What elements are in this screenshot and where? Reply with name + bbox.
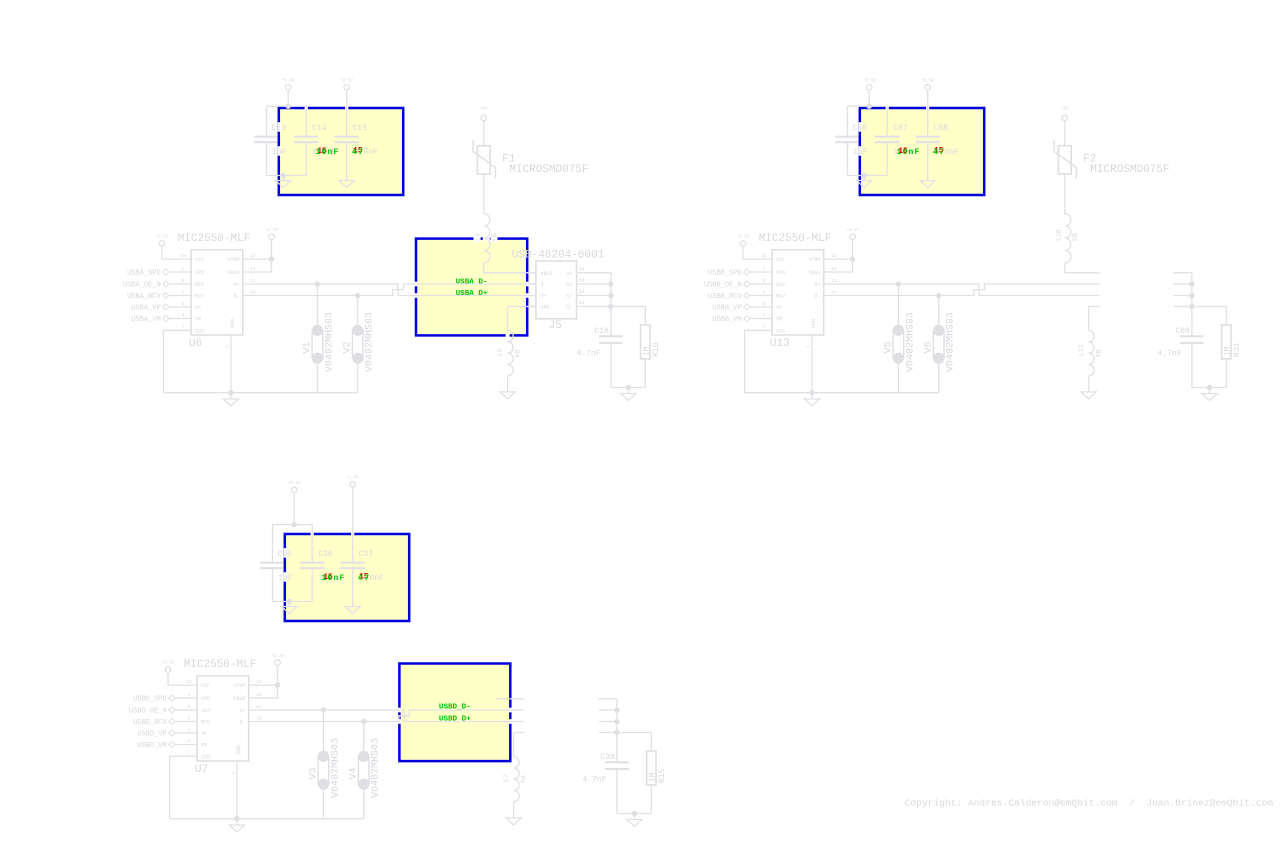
svg-text:+2.5V: +2.5V bbox=[156, 236, 169, 240]
wire VBUS stub (block C) bbox=[496, 698, 525, 700]
net label USBA_OE_N pin 9 bbox=[169, 283, 192, 285]
svg-text:15: 15 bbox=[186, 679, 192, 685]
wire S1 bbox=[577, 306, 611, 308]
svg-text:+5V: +5V bbox=[480, 108, 488, 112]
svg-text:C87: C87 bbox=[893, 124, 908, 133]
ground bbox=[500, 392, 515, 399]
svg-text:RCV: RCV bbox=[195, 294, 204, 300]
ferrite bead L11 bbox=[1089, 331, 1095, 376]
capacitor C13 bbox=[266, 106, 268, 137]
svg-text:C89: C89 bbox=[1175, 327, 1190, 336]
ground bbox=[627, 820, 642, 827]
ground bbox=[276, 181, 291, 188]
resistor R10 1M bbox=[611, 307, 645, 326]
svg-text:+2.5V: +2.5V bbox=[737, 236, 750, 240]
capacitor C16 4.7nF bbox=[610, 307, 612, 337]
svg-text:14: 14 bbox=[831, 266, 837, 272]
net label USBD_RCV pin 2 bbox=[175, 721, 198, 723]
capacitor C89 4.7nF bbox=[1191, 307, 1193, 337]
svg-text:D-: D- bbox=[541, 282, 547, 288]
svg-text:VTRM: VTRM bbox=[227, 257, 239, 263]
svg-text:MICROSMD075F: MICROSMD075F bbox=[1090, 164, 1169, 176]
svg-text:C15: C15 bbox=[353, 124, 368, 133]
svg-text:1uF: 1uF bbox=[278, 574, 293, 583]
net label USBA_VP pin 3 bbox=[169, 306, 192, 308]
svg-text:2: 2 bbox=[182, 290, 185, 296]
svg-text:V0402MHS03: V0402MHS03 bbox=[365, 312, 376, 372]
svg-text:D-: D- bbox=[814, 294, 820, 300]
svg-text:USBA_D-: USBA_D- bbox=[456, 279, 488, 287]
svg-text:L10: L10 bbox=[1056, 229, 1063, 241]
svg-text:10: 10 bbox=[256, 716, 262, 722]
wire pin 15 VIF bbox=[743, 246, 772, 259]
svg-text:12: 12 bbox=[256, 679, 262, 685]
wire S2 bbox=[1174, 295, 1192, 297]
wire pin 15 VIF bbox=[162, 246, 191, 259]
wire S2 bbox=[599, 721, 617, 723]
svg-text:VM: VM bbox=[776, 317, 782, 323]
fuse F1 MICROSMD075F bbox=[483, 121, 485, 146]
wire shield bus bbox=[616, 699, 618, 733]
wire bbox=[1192, 387, 1226, 389]
svg-text:USBD_OE_N: USBD_OE_N bbox=[129, 707, 167, 715]
svg-text:USBA_VM: USBA_VM bbox=[131, 316, 160, 324]
svg-text:VTRM: VTRM bbox=[808, 257, 820, 263]
wire gnd bus bbox=[745, 392, 939, 394]
svg-text:+3.3V: +3.3V bbox=[265, 229, 278, 233]
svg-text:+2.5V: +2.5V bbox=[346, 477, 359, 481]
svg-text:GND: GND bbox=[541, 305, 550, 311]
svg-text:U7: U7 bbox=[195, 764, 208, 776]
svg-text:SPD: SPD bbox=[201, 696, 210, 702]
wire bbox=[273, 524, 313, 526]
highlight box around C87 C88 bbox=[860, 108, 984, 195]
wire bbox=[611, 387, 645, 389]
svg-text:7: 7 bbox=[182, 324, 185, 330]
wire S2 bbox=[577, 295, 611, 297]
wire S1 bbox=[1174, 306, 1192, 308]
connector pin 3 D+ bbox=[527, 295, 536, 297]
wire S4 bbox=[577, 272, 611, 274]
svg-text:7: 7 bbox=[188, 750, 191, 756]
svg-text:U6: U6 bbox=[189, 338, 202, 350]
svg-text:47: 47 bbox=[352, 148, 365, 157]
svg-text:2: 2 bbox=[188, 716, 191, 722]
wire VBUS bbox=[484, 263, 536, 273]
svg-text:47: 47 bbox=[933, 148, 946, 157]
svg-text:FB: FB bbox=[521, 775, 528, 783]
svg-text:D-: D- bbox=[233, 294, 239, 300]
svg-text:VIF: VIF bbox=[201, 683, 210, 689]
svg-text:3: 3 bbox=[188, 727, 191, 733]
svg-text:GND: GND bbox=[236, 745, 242, 754]
wire D- with crossover jog bbox=[243, 290, 536, 296]
ground bbox=[339, 181, 354, 188]
svg-text:3: 3 bbox=[182, 301, 185, 307]
svg-text:15: 15 bbox=[761, 253, 767, 259]
svg-text:OE#: OE# bbox=[195, 282, 204, 288]
svg-text:SUS: SUS bbox=[776, 328, 785, 334]
svg-text:GND: GND bbox=[230, 319, 236, 328]
svg-text:FB: FB bbox=[1072, 233, 1079, 241]
svg-text:OE#: OE# bbox=[776, 282, 785, 288]
net label USBD_VM pin 4 bbox=[175, 744, 198, 746]
svg-text:+3.3V: +3.3V bbox=[271, 655, 284, 659]
ground bbox=[920, 181, 935, 188]
wire pin 14 VBUS bbox=[824, 259, 853, 272]
svg-text:VBUS: VBUS bbox=[233, 696, 245, 702]
svg-text:9: 9 bbox=[188, 704, 191, 710]
resistor R15 1M bbox=[617, 733, 651, 752]
ground bbox=[506, 818, 521, 825]
wire pin 7 SUS bbox=[170, 756, 198, 818]
svg-text:11: 11 bbox=[831, 278, 837, 284]
wire bbox=[267, 105, 307, 107]
varistor V2 VO402MHS03 bbox=[357, 296, 359, 331]
svg-text:S4: S4 bbox=[579, 266, 585, 272]
svg-text:12: 12 bbox=[831, 253, 837, 259]
svg-text:VM: VM bbox=[201, 743, 207, 749]
svg-text:USBA_OE_N: USBA_OE_N bbox=[123, 281, 161, 289]
svg-text:10nF: 10nF bbox=[322, 574, 346, 583]
svg-text:USBD_VP: USBD_VP bbox=[137, 730, 166, 738]
wire S4 bbox=[599, 698, 617, 700]
svg-text:11: 11 bbox=[250, 278, 256, 284]
svg-text:C36: C36 bbox=[318, 550, 333, 559]
wire bbox=[848, 175, 888, 177]
net label USBB_VP pin 3 bbox=[750, 306, 773, 308]
svg-text:S2: S2 bbox=[566, 294, 572, 300]
wire pin 7 SUS bbox=[745, 330, 773, 392]
svg-text:S2: S2 bbox=[579, 289, 585, 295]
svg-text:15: 15 bbox=[180, 253, 186, 259]
svg-text:USBD_VM: USBD_VM bbox=[137, 742, 166, 750]
svg-text:6: 6 bbox=[231, 771, 237, 774]
svg-text:3: 3 bbox=[763, 301, 766, 307]
svg-text:V5: V5 bbox=[883, 341, 894, 353]
svg-text:USBB_VM: USBB_VM bbox=[712, 316, 741, 324]
svg-text:S3: S3 bbox=[566, 282, 572, 288]
svg-text:D+: D+ bbox=[814, 282, 820, 288]
svg-text:4: 4 bbox=[763, 313, 766, 319]
svg-text:1: 1 bbox=[528, 267, 531, 273]
svg-text:2: 2 bbox=[763, 290, 766, 296]
svg-text:V4: V4 bbox=[349, 767, 360, 779]
svg-text:USBB_OE_N: USBB_OE_N bbox=[704, 281, 742, 289]
svg-text:OE#: OE# bbox=[201, 708, 210, 714]
svg-text:4: 4 bbox=[182, 313, 185, 319]
svg-text:1M: 1M bbox=[648, 772, 657, 782]
wire S3 bbox=[599, 709, 617, 711]
connector pin 4 GND bbox=[527, 306, 536, 308]
svg-text:Copyright: Andres.Calderon@emQ: Copyright: Andres.Calderon@emQbit.com / … bbox=[905, 797, 1274, 808]
svg-text:USBB_VP: USBB_VP bbox=[712, 304, 741, 312]
svg-text:VTRM: VTRM bbox=[233, 683, 245, 689]
capacitor C15 bbox=[346, 90, 348, 137]
connector pin 1 VBUS bbox=[527, 272, 536, 274]
wire S3 bbox=[1174, 283, 1192, 285]
wire bbox=[267, 175, 307, 177]
ground bbox=[282, 607, 297, 614]
svg-text:VIF: VIF bbox=[776, 257, 785, 263]
svg-text:VP: VP bbox=[195, 305, 201, 311]
svg-text:12: 12 bbox=[250, 253, 256, 259]
svg-text:+2.5V: +2.5V bbox=[921, 80, 934, 84]
varistor V3 VO402MHS03 bbox=[322, 710, 324, 756]
svg-text:4.7nF: 4.7nF bbox=[577, 350, 601, 359]
svg-text:S3: S3 bbox=[579, 278, 585, 284]
svg-text:MIC2550-MLF: MIC2550-MLF bbox=[184, 659, 257, 671]
svg-text:VBUS: VBUS bbox=[227, 270, 239, 276]
wire connector GND bbox=[512, 759, 516, 763]
svg-text:+2.5V: +2.5V bbox=[162, 662, 175, 666]
svg-text:4: 4 bbox=[528, 301, 531, 307]
svg-text:SUS: SUS bbox=[195, 328, 204, 334]
ground bbox=[345, 607, 360, 614]
svg-text:14: 14 bbox=[250, 266, 256, 272]
wire pin 15 VIF bbox=[168, 672, 197, 685]
svg-text:C86: C86 bbox=[853, 124, 868, 133]
svg-text:V6: V6 bbox=[924, 341, 935, 353]
svg-text:SPD: SPD bbox=[195, 270, 204, 276]
svg-text:D-: D- bbox=[239, 720, 245, 726]
capacitor C87 bbox=[886, 106, 888, 137]
ground bbox=[857, 181, 872, 188]
wire connector GND bbox=[1089, 306, 1100, 308]
svg-text:1: 1 bbox=[188, 692, 191, 698]
svg-text:+2.5V: +2.5V bbox=[340, 80, 353, 84]
svg-text:+3.3V: +3.3V bbox=[282, 80, 295, 84]
svg-text:L7: L7 bbox=[503, 774, 510, 782]
svg-text:SPD: SPD bbox=[776, 270, 785, 276]
svg-text:C13: C13 bbox=[272, 124, 287, 133]
svg-text:10nF: 10nF bbox=[897, 148, 921, 157]
svg-text:V3: V3 bbox=[308, 767, 319, 779]
ground bbox=[1081, 392, 1096, 399]
capacitor C38 4.7nF bbox=[616, 733, 618, 763]
svg-text:VBUS: VBUS bbox=[808, 270, 820, 276]
net label USBA_RCV pin 2 bbox=[169, 295, 192, 297]
capacitor C86 bbox=[847, 106, 849, 137]
ferrite bead L4 bbox=[474, 235, 481, 242]
svg-text:+3.3V: +3.3V bbox=[863, 80, 876, 84]
svg-text:USBA_D+: USBA_D+ bbox=[456, 290, 488, 298]
capacitor C14 bbox=[305, 106, 307, 137]
svg-text:4: 4 bbox=[188, 739, 191, 745]
svg-text:C14: C14 bbox=[312, 124, 327, 133]
svg-text:11: 11 bbox=[256, 704, 262, 710]
svg-text:9: 9 bbox=[763, 278, 766, 284]
svg-text:10nF: 10nF bbox=[316, 148, 340, 157]
svg-text:USBA_SPD: USBA_SPD bbox=[127, 269, 161, 277]
svg-text:10: 10 bbox=[250, 290, 256, 296]
highlight box around C14 C15 bbox=[279, 108, 403, 195]
wire pin 12 VTRM bbox=[249, 684, 278, 686]
svg-text:V0402MHS03: V0402MHS03 bbox=[330, 738, 341, 798]
ground bbox=[621, 394, 636, 401]
varistor V6 VO402MHS03 bbox=[938, 296, 940, 331]
svg-text:USBA_VP: USBA_VP bbox=[131, 304, 160, 312]
svg-text:9: 9 bbox=[182, 278, 185, 284]
svg-text:6: 6 bbox=[225, 345, 231, 348]
svg-text:C37: C37 bbox=[359, 550, 374, 559]
svg-text:4.7nF: 4.7nF bbox=[1158, 350, 1182, 359]
svg-text:C35: C35 bbox=[278, 550, 293, 559]
svg-text:C88: C88 bbox=[934, 124, 949, 133]
svg-text:RCV: RCV bbox=[776, 294, 785, 300]
svg-text:D+: D+ bbox=[239, 708, 245, 714]
varistor V1 VO402MHS03 bbox=[316, 284, 318, 330]
net label USBD_VP pin 3 bbox=[175, 732, 198, 734]
wire D+ with crossover jog bbox=[243, 284, 536, 290]
svg-text:4.7nF: 4.7nF bbox=[583, 776, 607, 785]
net label USBB_SPD pin 1 bbox=[750, 271, 773, 273]
svg-text:S1: S1 bbox=[579, 300, 585, 306]
wire bbox=[848, 105, 888, 107]
capacitor C88 bbox=[927, 90, 929, 137]
svg-text:SUS: SUS bbox=[201, 754, 210, 760]
svg-text:U13: U13 bbox=[770, 338, 790, 350]
wire connector GND bbox=[506, 334, 510, 338]
svg-text:1uF: 1uF bbox=[272, 148, 287, 157]
svg-text:VIF: VIF bbox=[195, 257, 204, 263]
svg-text:V1: V1 bbox=[302, 341, 313, 353]
wire pin 7 SUS bbox=[164, 330, 192, 392]
svg-text:V0402MHS03: V0402MHS03 bbox=[905, 312, 916, 372]
svg-text:R15: R15 bbox=[658, 768, 667, 783]
wire D- with crossover jog bbox=[249, 716, 525, 722]
wire VBUS bbox=[1065, 263, 1100, 273]
wire pin 14 VBUS bbox=[249, 685, 278, 698]
svg-text:MIC2550-MLF: MIC2550-MLF bbox=[178, 233, 251, 245]
svg-text:S1: S1 bbox=[566, 305, 572, 311]
svg-text:C38: C38 bbox=[600, 753, 615, 762]
svg-text:FB: FB bbox=[491, 233, 498, 241]
highlight box around USBA_D nets bbox=[416, 239, 527, 336]
varistor V5 VO402MHS03 bbox=[897, 284, 899, 330]
svg-text:GND: GND bbox=[811, 319, 817, 328]
svg-text:FB: FB bbox=[1096, 349, 1103, 357]
svg-text:L4: L4 bbox=[475, 233, 482, 241]
net label USBA_VM pin 4 bbox=[169, 318, 192, 320]
svg-text:L11: L11 bbox=[1078, 344, 1085, 356]
svg-text:1uF: 1uF bbox=[853, 148, 868, 157]
svg-text:V0402MHS03: V0402MHS03 bbox=[324, 312, 335, 372]
svg-text:USBB_RCV: USBB_RCV bbox=[708, 293, 742, 301]
svg-text:R10: R10 bbox=[652, 342, 661, 357]
svg-text:C16: C16 bbox=[594, 327, 609, 336]
svg-text:3: 3 bbox=[528, 290, 531, 296]
wire pin 12 VTRM bbox=[824, 258, 853, 260]
net label USBB_RCV pin 2 bbox=[750, 295, 773, 297]
svg-text:D+: D+ bbox=[541, 294, 547, 300]
svg-text:USBB_SPD: USBB_SPD bbox=[708, 269, 742, 277]
svg-text:VP: VP bbox=[776, 305, 782, 311]
fuse F2 MICROSMD075F bbox=[1064, 121, 1066, 146]
svg-text:USBD_RCV: USBD_RCV bbox=[133, 719, 167, 727]
resistor R31 1M bbox=[1192, 307, 1226, 326]
svg-text:J5: J5 bbox=[549, 320, 562, 332]
svg-text:L5: L5 bbox=[497, 348, 504, 356]
net label USBB_VM pin 4 bbox=[750, 318, 773, 320]
svg-text:VBUS: VBUS bbox=[541, 271, 553, 277]
svg-text:USBA_RCV: USBA_RCV bbox=[127, 293, 161, 301]
ferrite bead L7 bbox=[514, 757, 520, 802]
wire D- with crossover jog bbox=[824, 290, 1100, 296]
wire gnd bus bbox=[170, 818, 364, 820]
wire pin 14 VBUS bbox=[243, 259, 272, 272]
varistor V4 VO402MHS03 bbox=[363, 722, 365, 757]
net label USBA_SPD pin 1 bbox=[169, 271, 192, 273]
svg-text:D+: D+ bbox=[233, 282, 239, 288]
svg-text:1: 1 bbox=[182, 266, 185, 272]
svg-text:10: 10 bbox=[831, 290, 837, 296]
svg-text:MIC2550-MLF: MIC2550-MLF bbox=[759, 233, 832, 245]
svg-text:RCV: RCV bbox=[201, 720, 210, 726]
svg-text:MICROSMD075F: MICROSMD075F bbox=[509, 164, 588, 176]
svg-text:R31: R31 bbox=[1233, 342, 1242, 357]
net label USBD_SPD pin 1 bbox=[175, 697, 198, 699]
svg-text:2: 2 bbox=[528, 279, 531, 285]
svg-text:V2: V2 bbox=[343, 341, 354, 353]
svg-text:1M: 1M bbox=[642, 346, 651, 356]
svg-text:VP: VP bbox=[201, 731, 207, 737]
wire D+ with crossover jog bbox=[824, 284, 1100, 290]
wire bbox=[273, 601, 313, 603]
capacitor C36 bbox=[311, 525, 313, 563]
svg-text:V0402MHS03: V0402MHS03 bbox=[371, 738, 382, 798]
svg-text:VM: VM bbox=[195, 317, 201, 323]
svg-text:1: 1 bbox=[763, 266, 766, 272]
wire bbox=[617, 813, 651, 815]
svg-text:V0402MHS03: V0402MHS03 bbox=[946, 312, 957, 372]
wire gnd bus bbox=[164, 392, 358, 394]
wire S1 bbox=[599, 732, 617, 734]
svg-text:47: 47 bbox=[358, 574, 371, 583]
svg-text:S4: S4 bbox=[566, 271, 572, 277]
highlight box around C36 C37 bbox=[285, 534, 409, 621]
svg-text:1M: 1M bbox=[1223, 346, 1232, 356]
connector pin 2 D- bbox=[527, 283, 536, 285]
net label USBB_OE_N pin 9 bbox=[750, 283, 773, 285]
svg-text:USB-48204-0001: USB-48204-0001 bbox=[512, 250, 605, 262]
net label USBD_OE_N pin 9 bbox=[175, 709, 198, 711]
svg-text:USBD_SPD: USBD_SPD bbox=[133, 695, 167, 703]
ground bbox=[804, 399, 819, 406]
capacitor C37 bbox=[352, 487, 354, 563]
wire S4 bbox=[1174, 272, 1192, 274]
svg-text:FB: FB bbox=[515, 349, 522, 357]
svg-text:6: 6 bbox=[806, 345, 812, 348]
svg-text:14: 14 bbox=[256, 692, 262, 698]
capacitor C35 bbox=[272, 525, 274, 563]
svg-text:7: 7 bbox=[763, 324, 766, 330]
wire shield bus bbox=[610, 273, 612, 307]
wire D+ with crossover jog bbox=[249, 710, 525, 716]
ground bbox=[1202, 394, 1217, 401]
highlight box around USBD_D nets bbox=[399, 664, 510, 762]
ferrite bead L5 bbox=[508, 331, 514, 376]
ground bbox=[223, 399, 238, 406]
svg-text:+3.3V: +3.3V bbox=[288, 482, 301, 486]
wire S3 bbox=[577, 283, 611, 285]
wire pin 12 VTRM bbox=[243, 258, 272, 260]
wire shield bus bbox=[1191, 273, 1193, 307]
ground bbox=[229, 825, 244, 832]
svg-text:+3.3V: +3.3V bbox=[846, 229, 859, 233]
svg-text:+5V: +5V bbox=[1061, 108, 1069, 112]
